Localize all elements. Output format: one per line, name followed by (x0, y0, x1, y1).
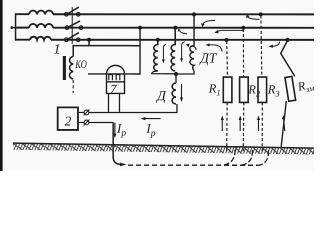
generator winding phase C (30, 37, 51, 40)
transformer T winding teeth (109, 75, 120, 81)
svg-text:1: 1 (54, 42, 61, 57)
reactor D winding (172, 83, 176, 104)
resistor R3 (258, 77, 267, 102)
underground hook 1 (223, 150, 235, 166)
terminal lower (78, 120, 89, 126)
underground hook 2 (241, 150, 252, 165)
resistor R2 (240, 77, 249, 102)
wire: H2 to earth electrode (89, 121, 113, 123)
generator winding phase B (29, 24, 53, 28)
arrow: hook at bus B right of DT2 (178, 29, 187, 34)
arrow: hook below bus C left of branch 1 (206, 43, 222, 51)
arrow: current in D (180, 84, 183, 102)
underground dashed return line (128, 164, 258, 166)
wire: earth electrode (113, 122, 120, 164)
arrow: hook at bus B left of branch 2 (214, 30, 243, 33)
arrow: current up fault path (282, 115, 285, 131)
arrow: current in DT1 (162, 44, 166, 63)
coil KO winding (70, 56, 74, 79)
arrow: hook at bus C left of DT3 (186, 44, 196, 50)
capacitive branch 1: lower dashes (226, 102, 229, 152)
arrow: return current right (120, 163, 127, 167)
svg-text:Д: Д (155, 89, 167, 104)
DT winding 3 (177, 12, 196, 74)
node: tap on bus C (87, 38, 91, 46)
arrow: hook below fault point (269, 42, 280, 48)
capacitive branch 2: lower dashes (242, 102, 245, 152)
arrow: current up branch 2 (239, 116, 242, 132)
resistor Rzm tilted (285, 76, 296, 101)
node: fault point on bus C (285, 38, 289, 42)
wire: T left terminal stub (88, 73, 107, 75)
arrow: current in DT2 (180, 42, 185, 63)
arrow: hook at bus B right of DT3 (201, 20, 215, 27)
capacitive branch 2: feed (241, 26, 245, 77)
bus C (bottom phase line) (16, 39, 314, 41)
wire: dashed stub below KO (72, 80, 74, 93)
svg-text:ДТ: ДТ (198, 52, 217, 67)
earth hatched ground (13, 143, 314, 155)
wire: D top lead (175, 76, 177, 84)
disconnector 1 pole C (65, 33, 81, 42)
node: T feed from bus B (125, 26, 143, 74)
box device 2 (58, 107, 78, 130)
node: DT common point (174, 72, 178, 76)
arrow: Ip flowing left (140, 117, 160, 120)
wire: H1 to reactor D (89, 104, 177, 113)
arrow: Ip down at electrode (113, 122, 116, 138)
generator winding phase A (29, 11, 53, 15)
capacitive branch 3: lower dashes (261, 102, 263, 152)
disconnector linkage bar (71, 7, 73, 44)
arrow: current up branch 3 (257, 116, 260, 132)
arrow: hook at bus A left of branch 3 (246, 15, 259, 20)
svg-text:КО: КО (75, 59, 88, 71)
lightning fault path upper zigzag (281, 41, 295, 77)
arrow: current up branch 1 (221, 116, 224, 132)
wire: KO to T feeder (73, 46, 140, 57)
disconnector 1 pole A (65, 7, 81, 16)
coil KO core (63, 56, 66, 80)
terminal upper (78, 110, 89, 116)
capacitive branch 1: feed (225, 38, 229, 77)
underground hook 3 (258, 150, 268, 165)
svg-text:2: 2 (65, 114, 72, 129)
DT winding 1 (152, 38, 176, 74)
svg-text:7: 7 (110, 82, 117, 96)
bus B (middle phase line) (16, 27, 314, 29)
disconnector 1 pole B (65, 21, 83, 30)
DT winding 2 (171, 26, 177, 71)
wire: secondary left lead (107, 93, 109, 112)
capacitive branch 3: feed (259, 12, 263, 77)
node: left bus tie (10, 13, 15, 41)
bus A (top phase line) (16, 13, 314, 15)
resistor R1 (223, 77, 232, 102)
wire: secondary right lead (118, 93, 120, 112)
transformer T body (106, 65, 124, 93)
lightning fault path to ground (281, 101, 286, 147)
